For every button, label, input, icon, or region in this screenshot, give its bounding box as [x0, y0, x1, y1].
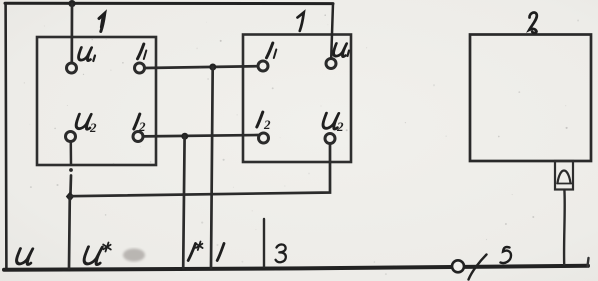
- label U* (bottom terminal): [83, 247, 104, 265]
- label U (bottom bus terminal): [16, 249, 34, 265]
- terminal I2 (right box): [259, 133, 269, 143]
- junction: dot of dash-dot lead: [69, 168, 73, 172]
- junction: top bus / U1 lead: [68, 0, 75, 7]
- wire: I1(left) to I1(right) current link: [145, 66, 258, 68]
- pin label U2 (right box): [322, 113, 340, 129]
- terminal I2 (left box): [133, 132, 143, 142]
- pin label I1 (left box): [138, 44, 147, 59]
- terminal U2 (right box): [325, 134, 335, 144]
- wire: I2(left) to I2(right) current link: [144, 135, 259, 136]
- label 2 (box 2): [529, 12, 537, 32]
- pin label I1 (right box): [267, 43, 277, 58]
- label I (bottom terminal): [217, 244, 224, 261]
- pin label I2 (right box): [257, 112, 263, 127]
- wire: bottom rail end hook: [588, 258, 589, 266]
- label 5 (switch): [501, 247, 512, 263]
- pin label U1 (right box): [333, 44, 349, 57]
- connector X1 under box 2: [555, 161, 573, 190]
- terminal I1 (left box): [135, 63, 145, 73]
- label 1 (right box): [298, 12, 304, 30]
- terminal I1 (right box): [258, 61, 268, 71]
- wire: connector lead down to bottom bus: [563, 190, 566, 265]
- box 1 (right measuring unit): [243, 35, 351, 163]
- svg-text:2: 2: [89, 120, 97, 135]
- wire: U2(left) dash-dot lead down: [69, 142, 72, 193]
- svg-text:2: 2: [263, 117, 271, 132]
- wire: top bus horizontal: [5, 2, 333, 5]
- wire: left bus vertical (terminal U lead): [4, 4, 7, 269]
- wire: bottom bus rail: [4, 266, 588, 270]
- terminal U2 (left box): [66, 132, 76, 142]
- label 1 (left box): [99, 13, 105, 31]
- wire: I* lead down to bottom bus: [183, 136, 184, 268]
- terminal U1 (left box): [67, 63, 77, 73]
- label I* (bottom terminal): [188, 244, 195, 261]
- svg-text:2: 2: [336, 119, 344, 134]
- pin label U2 (left box): [75, 114, 92, 129]
- box 1 (left measuring unit): [37, 37, 156, 165]
- wire: U* lead down to bottom bus: [68, 196, 72, 268]
- wire: U2 link across to U2(right): [70, 144, 330, 196]
- wire: top bus corner down to U1(right): [331, 4, 333, 59]
- wire: ground electrode lead (node 3): [263, 219, 265, 267]
- svg-text:2: 2: [138, 119, 146, 134]
- terminal U1 (right box): [326, 59, 336, 69]
- wire: from top bus down to terminal U1 (left box): [70, 4, 73, 63]
- junction: current link / I lead: [209, 64, 216, 71]
- pin label U1 (left box): [78, 48, 95, 62]
- junction: U* node diamond: [66, 192, 74, 202]
- switch 5 contact circle: [452, 260, 464, 272]
- wire: I lead down to bottom bus: [211, 67, 213, 268]
- box 2 (load unit): [470, 35, 591, 162]
- junction: current link 2 / I* lead: [181, 133, 188, 140]
- label Э (electrode terminal): [276, 244, 286, 262]
- switch 5 blade slash: [469, 255, 487, 280]
- pin label I2 (left box): [134, 114, 140, 129]
